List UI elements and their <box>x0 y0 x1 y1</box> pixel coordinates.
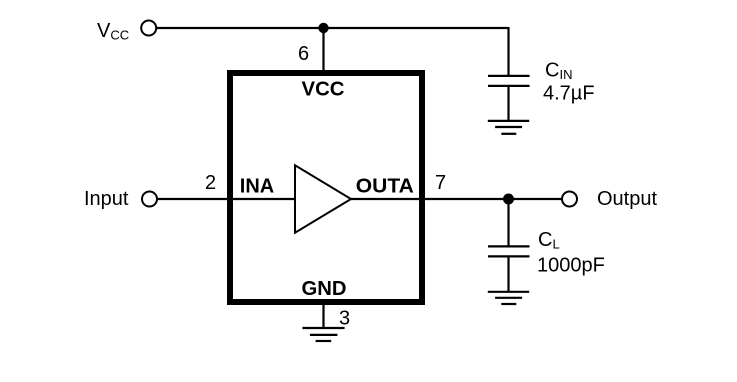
ground CIN <box>488 121 529 134</box>
svg-text:INA: INA <box>240 176 274 198</box>
wire input <box>158 198 296 200</box>
svg-text:OUTA: OUTA <box>356 176 414 198</box>
wire Cin top <box>507 27 509 76</box>
svg-text:2: 2 <box>205 172 216 194</box>
svg-text:1000pF: 1000pF <box>537 255 605 277</box>
IC U1 <box>230 73 422 302</box>
svg-text:CL: CL <box>538 229 560 252</box>
svg-text:Input: Input <box>84 188 129 210</box>
svg-text:3: 3 <box>339 308 350 330</box>
op-amp buffer A <box>295 165 351 232</box>
wire pin 6 <box>322 28 324 73</box>
svg-text:Output: Output <box>597 188 657 210</box>
svg-text:VCC: VCC <box>97 20 129 43</box>
wire output <box>351 198 562 200</box>
svg-text:CIN: CIN <box>545 60 572 83</box>
wire pin 3 <box>322 302 324 328</box>
ground IC GND <box>302 328 344 341</box>
svg-text:GND: GND <box>302 278 347 300</box>
wire CL bottom <box>507 256 509 291</box>
wire Cin bottom <box>507 86 509 121</box>
capacitor CL <box>488 246 530 256</box>
junction Vcc node <box>318 23 328 33</box>
svg-text:6: 6 <box>298 43 309 65</box>
ground CL <box>488 292 529 304</box>
terminal Output <box>562 192 577 207</box>
capacitor CIN <box>488 76 530 86</box>
junction output node <box>503 194 514 205</box>
wire CL top <box>507 199 509 246</box>
svg-text:7: 7 <box>435 172 446 194</box>
wire Vcc rail <box>157 27 509 29</box>
svg-text:VCC: VCC <box>302 78 345 100</box>
svg-text:4.7µF: 4.7µF <box>543 83 595 105</box>
terminal Vcc <box>141 21 156 36</box>
terminal Input <box>142 192 157 207</box>
